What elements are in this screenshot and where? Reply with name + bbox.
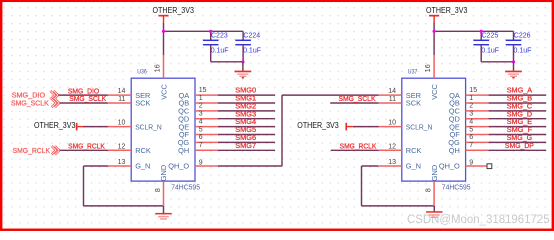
wire down to ground [242, 62, 244, 71]
svg-text:SMG_SCLK: SMG_SCLK [339, 94, 376, 103]
junction at OTHER_3V3 / U37 VCC node [433, 30, 436, 33]
wire U37 QD output [489, 118, 547, 120]
wire C224 bottom lead [242, 45, 244, 62]
wire U37 QE output [489, 126, 547, 128]
IC U36 body box [131, 78, 195, 181]
wire U36 QF output [218, 134, 275, 136]
svg-text:8: 8 [155, 188, 162, 192]
svg-text:RCK: RCK [406, 146, 422, 155]
svg-text:GND: GND [430, 165, 439, 181]
U37 pin 14 SER lead [379, 94, 402, 96]
capacitor C225 [473, 40, 489, 44]
svg-text:GND: GND [159, 165, 168, 181]
wire SMG_RCLK to U36 RCK [60, 149, 108, 151]
svg-text:10: 10 [118, 120, 126, 127]
wire U37 QH output [489, 149, 547, 151]
U37 pin 2 QC lead [466, 110, 489, 112]
wire U37 QF output [489, 134, 547, 136]
svg-text:QH: QH [178, 146, 189, 155]
svg-text:0.1uF: 0.1uF [514, 48, 532, 55]
svg-text:74HC595: 74HC595 [171, 185, 200, 192]
svg-text:11: 11 [389, 96, 396, 103]
wire U36 QG output [218, 141, 275, 143]
U37 pin 10 SCLR_N lead [379, 126, 402, 128]
wire U37 GND pin to ground [433, 206, 435, 212]
wire rail junction down to U37 VCC pin16 [433, 31, 435, 55]
port SMG_RCLK chevron [52, 146, 60, 155]
wire U36 QH_O right [218, 165, 282, 167]
wire U36 G_N left [84, 165, 108, 167]
capacitor C226 [506, 40, 522, 44]
svg-text:G_N: G_N [406, 162, 421, 171]
wire C223 top lead [210, 31, 212, 40]
wire U37 QC output [489, 110, 547, 112]
svg-text:15: 15 [199, 87, 207, 94]
wire U36 QA output [218, 94, 275, 96]
svg-text:SMG_RCLK: SMG_RCLK [13, 146, 50, 155]
svg-text:SMG7: SMG7 [235, 141, 256, 150]
svg-text:U37: U37 [408, 69, 418, 76]
svg-text:6: 6 [199, 134, 203, 141]
wire U36 QE output [218, 126, 275, 128]
svg-text:1: 1 [469, 95, 473, 102]
port SMG_DIO chevron [50, 91, 58, 100]
svg-text:SCK: SCK [406, 99, 421, 108]
svg-text:3: 3 [199, 111, 203, 118]
svg-text:OTHER_3V3: OTHER_3V3 [34, 121, 75, 130]
wire VCC rail to C226 [434, 30, 513, 32]
U36 pin 6 QG lead [195, 141, 218, 143]
svg-text:11: 11 [118, 96, 125, 103]
U37 pin 4 QE lead [466, 126, 489, 128]
svg-text:G_N: G_N [135, 162, 150, 171]
svg-text:QH_O: QH_O [439, 162, 460, 171]
svg-text:14: 14 [388, 88, 396, 95]
wire C226 top lead [513, 31, 515, 40]
svg-text:4: 4 [469, 118, 473, 125]
U36 pin 5 QF lead [195, 134, 218, 136]
junction C223 tap [209, 30, 212, 33]
port SMG_SCLK chevron [52, 99, 60, 108]
svg-text:16: 16 [425, 64, 432, 72]
U37 pin 15 QA lead [466, 94, 489, 96]
junction caps ground node [241, 60, 244, 63]
svg-text:SMG_RCLK: SMG_RCLK [68, 142, 105, 151]
svg-text:CSDN@Moon_3181961725: CSDN@Moon_3181961725 [407, 212, 550, 226]
svg-text:10: 10 [388, 120, 396, 127]
svg-text:VCC: VCC [430, 84, 439, 100]
wire SMG_DIO to U36 SER [58, 94, 108, 96]
svg-text:12: 12 [388, 143, 396, 150]
wire power flag to rail junction [163, 23, 165, 31]
U36 pin 12 RCK lead [108, 149, 131, 151]
svg-text:SMG_SCLK: SMG_SCLK [69, 94, 106, 103]
U37 pin 3 QD lead [466, 118, 489, 120]
power flag OTHER_3V3 (U36 SCLR_N) [34, 121, 83, 130]
wire power flag to rail junction (U37) [433, 23, 435, 31]
junction C225 tap [480, 30, 483, 33]
U37 pin 13 G_N lead [379, 165, 402, 167]
wire U36 QC output [218, 110, 275, 112]
U36 pin 14 SER lead [108, 94, 131, 96]
ground (C223/C224) [235, 71, 252, 79]
ground (U37) [426, 211, 442, 218]
svg-text:5: 5 [469, 126, 473, 133]
wire SMG_RCLK to U37 RCK [331, 149, 379, 151]
U37 pin 6 QG lead [466, 141, 489, 143]
svg-text:C223: C223 [211, 32, 228, 39]
capacitor C223 [203, 40, 219, 44]
wire U37 QG output [489, 141, 547, 143]
svg-text:RCK: RCK [135, 146, 151, 155]
svg-text:74HC595: 74HC595 [442, 185, 471, 192]
wire rail junction down to U36 VCC pin16 [163, 31, 165, 55]
U36 pin 3 QD lead [195, 118, 218, 120]
svg-text:SCLR_N: SCLR_N [135, 122, 162, 131]
wire U36 G_N to GND pin [84, 205, 164, 207]
svg-text:SMG_DP: SMG_DP [505, 141, 534, 150]
svg-text:OTHER_3V3: OTHER_3V3 [153, 6, 194, 15]
svg-text:OTHER_3V3: OTHER_3V3 [297, 121, 338, 130]
wire OTHER_3V3 to U36 SCLR_N [83, 126, 108, 128]
wire down to ground (U37 caps) [513, 62, 515, 71]
wire U36 QD output [218, 118, 275, 120]
U36 pin 4 QE lead [195, 126, 218, 128]
U36 pin 8 GND lead [163, 181, 165, 206]
svg-text:0.1uF: 0.1uF [211, 48, 229, 55]
wire U37 G_N left [362, 165, 379, 167]
wire C224 top lead [242, 31, 244, 40]
svg-text:2: 2 [199, 103, 203, 110]
svg-text:SMG_RCLK: SMG_RCLK [340, 142, 377, 151]
svg-text:8: 8 [426, 188, 433, 192]
svg-text:C224: C224 [243, 32, 260, 39]
svg-text:2: 2 [469, 103, 473, 110]
wire C225 top lead [480, 31, 482, 40]
svg-text:OTHER_3V3: OTHER_3V3 [426, 6, 467, 15]
U36 pin 16 VCC lead [163, 55, 165, 78]
svg-text:4: 4 [199, 118, 203, 125]
wire OTHER_3V3 to U37 SCLR_N [353, 126, 379, 128]
U36 pin 7 QH lead [195, 149, 218, 151]
svg-text:3: 3 [469, 111, 473, 118]
wire daisy to U37 SER [282, 94, 379, 96]
svg-text:9: 9 [199, 160, 203, 167]
wire C225 bottom lead [480, 45, 482, 62]
U37 pin 5 QF lead [466, 134, 489, 136]
U37 pin 1 QB lead [466, 102, 489, 104]
svg-text:7: 7 [199, 142, 203, 149]
svg-text:7: 7 [469, 142, 473, 149]
ground (U36) [155, 213, 171, 220]
wire caps bottom bus [211, 61, 243, 63]
wire U37 QB output [489, 102, 547, 104]
svg-text:SMG_SCLK: SMG_SCLK [11, 99, 49, 108]
wire U36 GND pin to ground [163, 206, 165, 213]
svg-text:5: 5 [199, 126, 203, 133]
svg-text:12: 12 [118, 143, 126, 150]
svg-text:VCC: VCC [159, 84, 168, 100]
U36 pin 11 SCK lead [108, 102, 131, 104]
wire C226 bottom lead [513, 45, 515, 62]
svg-text:13: 13 [388, 159, 396, 166]
svg-text:0.1uF: 0.1uF [243, 48, 261, 55]
svg-text:SCK: SCK [135, 99, 150, 108]
wire U37 G_N to GND pin [362, 205, 435, 207]
junction caps ground node (U37) [512, 60, 515, 63]
IC U37 body box [402, 78, 466, 181]
U37 pin 7 QH lead [466, 149, 489, 151]
svg-text:1: 1 [199, 95, 203, 102]
node U37 QH_O dangling end marker [487, 164, 492, 169]
power flag OTHER_3V3 (U37 rail) [426, 6, 467, 23]
svg-text:9: 9 [469, 160, 473, 167]
svg-text:16: 16 [155, 64, 162, 72]
ground (C225/C226) [505, 71, 522, 79]
wire U36 QB output [218, 102, 275, 104]
wire VCC rail to C224 [164, 30, 244, 32]
wire U36 QH output [218, 149, 275, 151]
wire caps bottom bus (U37) [481, 61, 513, 63]
wire C223 bottom lead [210, 45, 212, 62]
U37 pin 12 RCK lead [379, 149, 402, 151]
svg-text:QH_O: QH_O [168, 162, 189, 171]
svg-text:15: 15 [469, 87, 477, 94]
U36 pin 1 QB lead [195, 102, 218, 104]
svg-text:6: 6 [469, 134, 473, 141]
U36 pin 9 QH_O lead [195, 165, 218, 167]
U37 pin 16 VCC lead [433, 55, 435, 78]
capacitor C224 [235, 40, 251, 44]
U37 pin 8 GND lead [433, 181, 435, 206]
wire SMG_SCLK to U36 SCK [60, 102, 108, 104]
svg-text:C225: C225 [482, 32, 499, 39]
power flag OTHER_3V3 (U36 rail) [153, 6, 194, 23]
wire SMG_SCLK to U37 SCK [330, 102, 378, 104]
svg-text:0.1uF: 0.1uF [481, 48, 499, 55]
svg-text:U36: U36 [137, 69, 147, 76]
wire U37 QA output [489, 94, 547, 96]
wire U37 G_N down [361, 166, 363, 206]
svg-text:C226: C226 [514, 32, 531, 39]
wire daisy vertical [281, 95, 283, 166]
power flag OTHER_3V3 (U37 SCLR_N) [297, 121, 353, 130]
U36 pin 13 G_N lead [108, 165, 131, 167]
svg-text:SCLR_N: SCLR_N [406, 122, 433, 131]
wire U36 G_N down [83, 166, 85, 206]
U37 pin 9 QH_O lead [466, 165, 489, 167]
junction at OTHER_3V3 / VCC node [162, 30, 165, 33]
U36 pin 10 SCLR_N lead [108, 126, 131, 128]
svg-text:14: 14 [118, 88, 126, 95]
svg-text:13: 13 [118, 159, 126, 166]
U37 pin 11 SCK lead [379, 102, 402, 104]
U36 pin 2 QC lead [195, 110, 218, 112]
U36 pin 15 QA lead [195, 94, 218, 96]
svg-text:QH: QH [449, 146, 460, 155]
